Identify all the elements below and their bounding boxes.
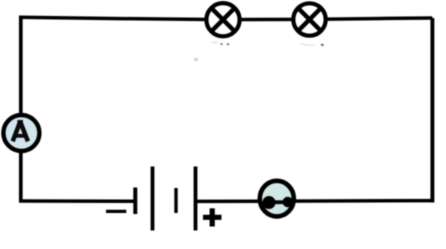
smudge blob left of lamps [194, 58, 198, 62]
battery cell plate long 2 (positive) [194, 167, 198, 231]
label minus [106, 210, 126, 213]
wire right [430, 18, 434, 203]
lamp L1 [206, 3, 239, 36]
battery cell plate short 1 (negative) [133, 188, 137, 215]
wire bottom-left (to battery) [19, 199, 136, 203]
battery cell plate short 2 (negative) [174, 188, 177, 213]
smudge under L2 [321, 44, 324, 45]
wire top [19, 17, 432, 19]
switch S1 (closed) [260, 181, 294, 217]
smudge halo under L1 [211, 41, 219, 44]
ammeter A [3, 115, 39, 151]
wire left [19, 16, 23, 202]
smudge halo under L2 [300, 44, 314, 46]
lamp L2 [293, 3, 325, 35]
wire bottom-right (battery to right corner) [196, 199, 434, 203]
battery cell plate long 1 (positive) [151, 167, 155, 231]
label plus [203, 208, 222, 226]
smudge under L1 [221, 43, 230, 45]
